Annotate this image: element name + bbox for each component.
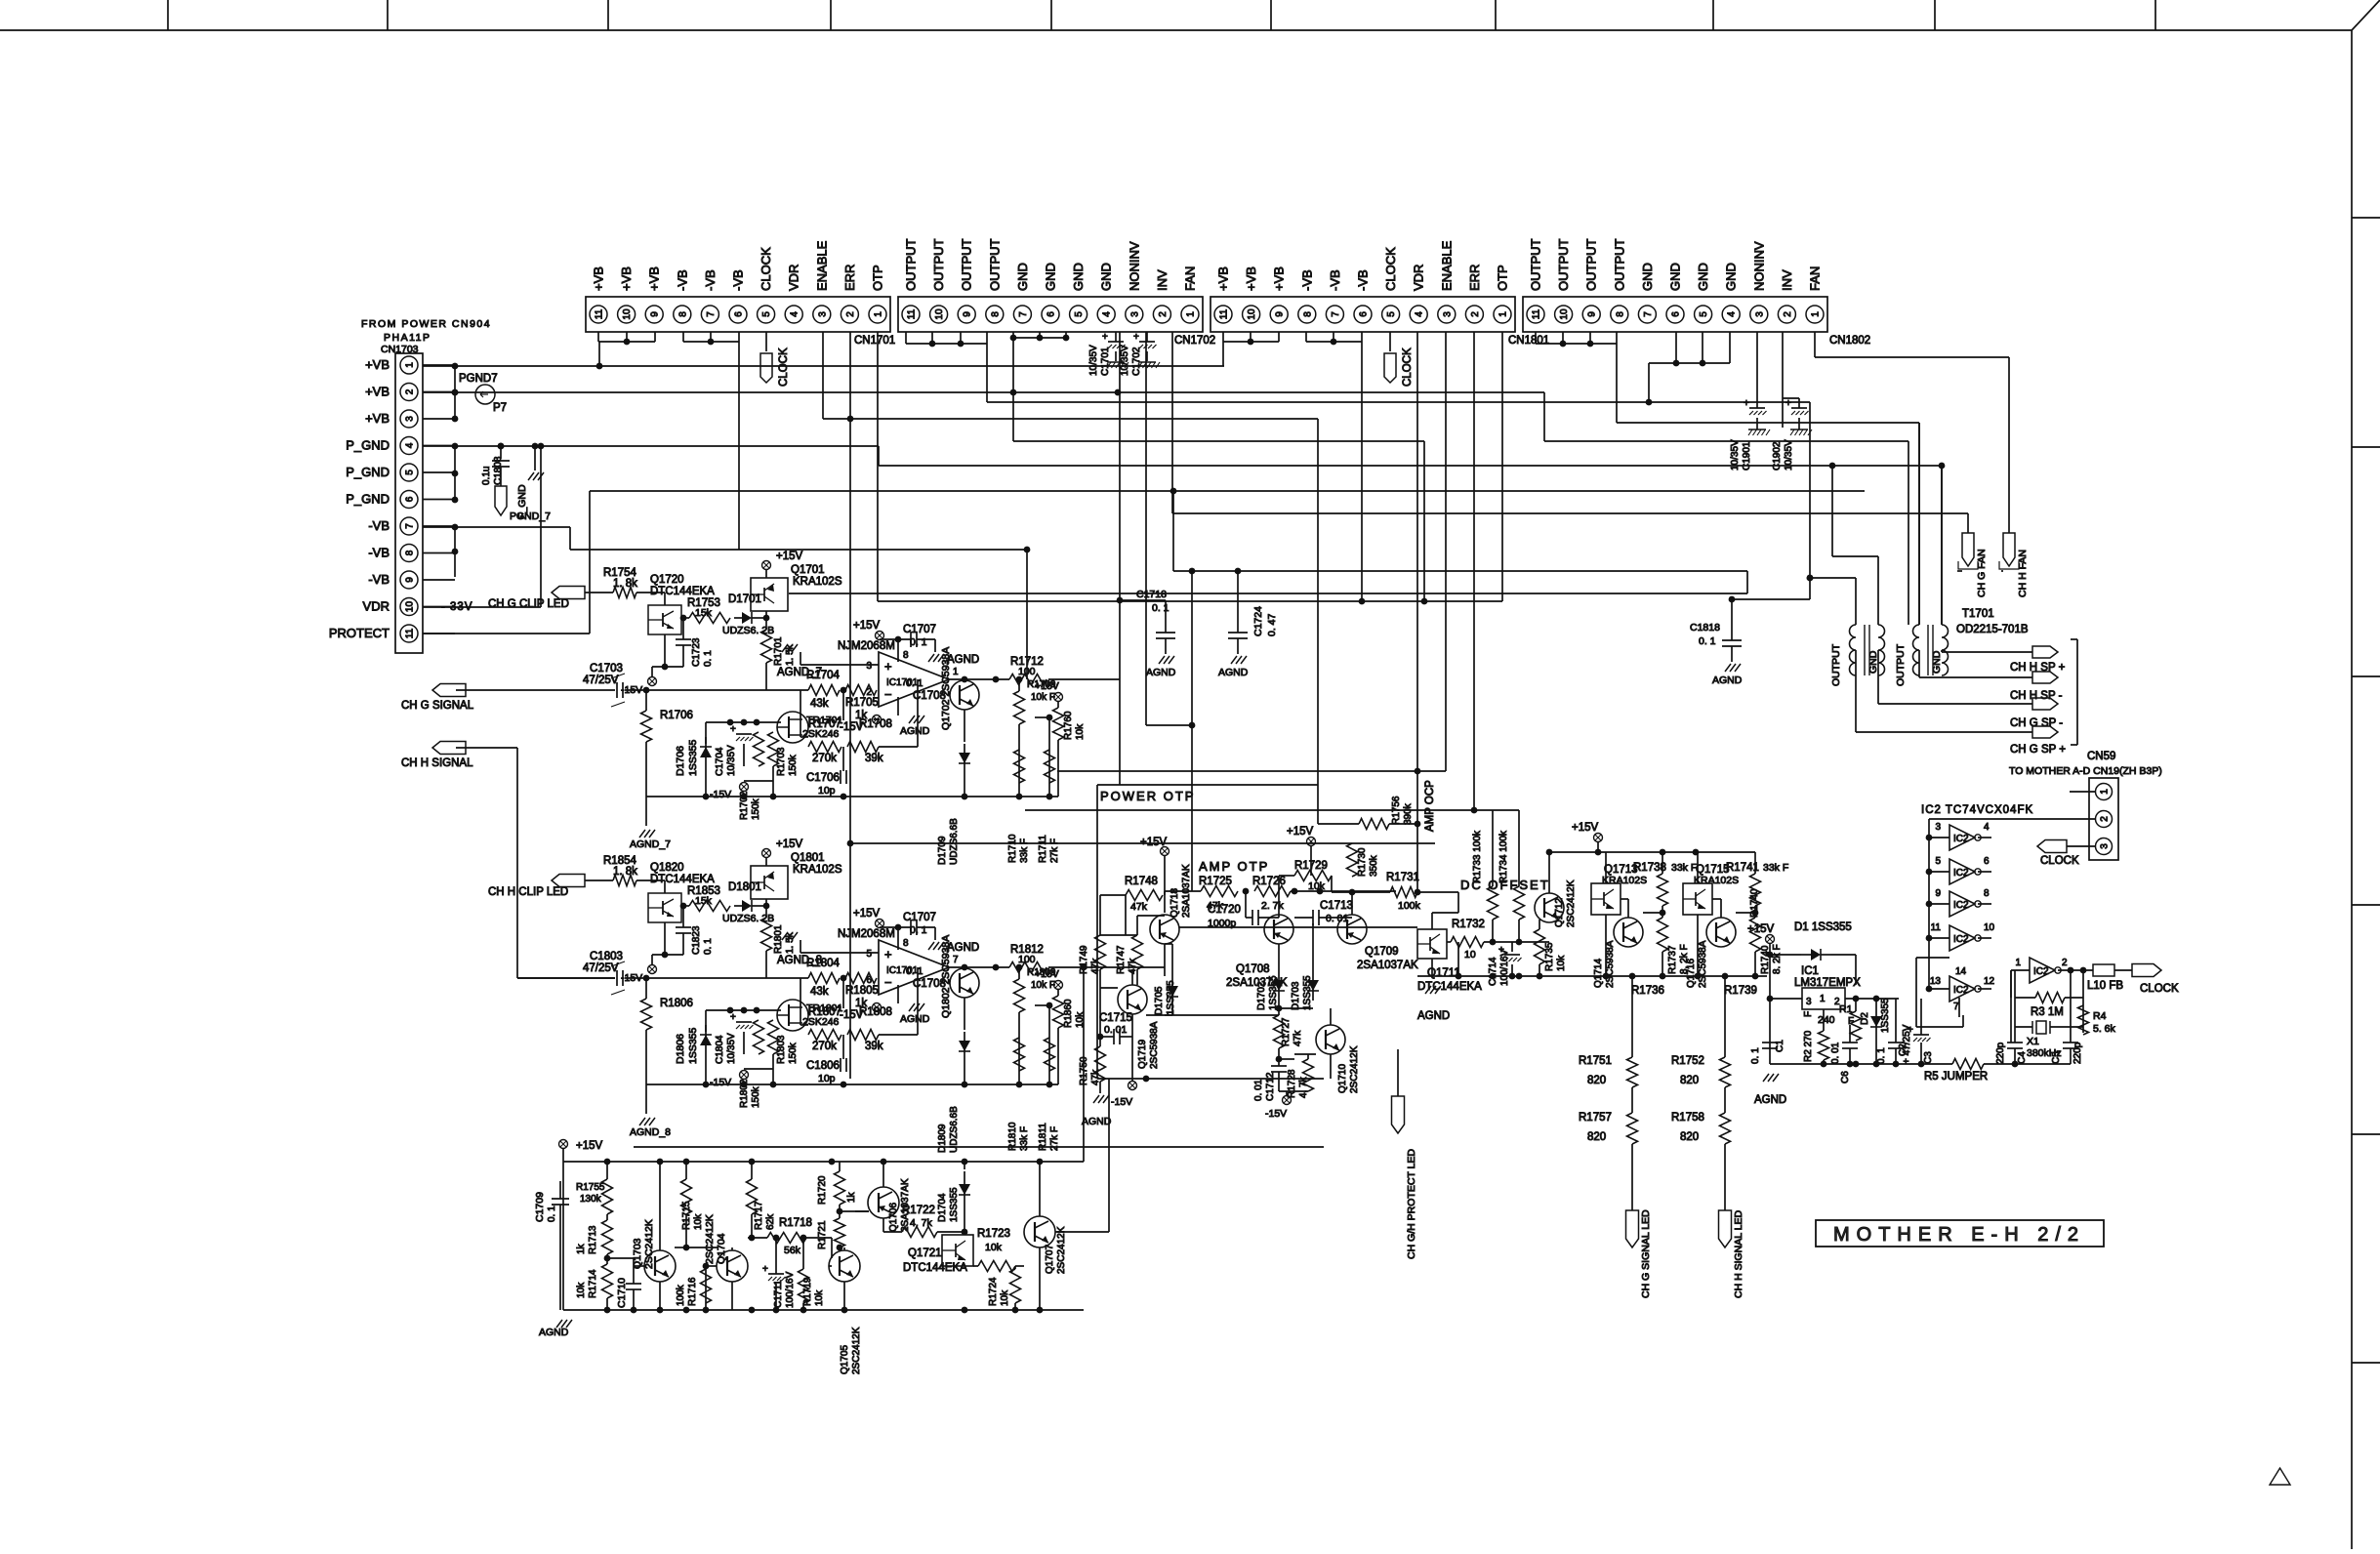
svg-text:10k F: 10k F <box>1031 980 1055 991</box>
svg-text:3: 3 <box>1754 311 1765 317</box>
svg-text:R1720: R1720 <box>817 1175 828 1205</box>
svg-text:+: + <box>730 724 736 735</box>
svg-text:R1731: R1731 <box>1386 872 1419 883</box>
svg-text:150k: 150k <box>788 1042 799 1064</box>
svg-text:C1718: C1718 <box>1136 589 1167 600</box>
svg-text:CH G/H PROTECT LED: CH G/H PROTECT LED <box>1406 1149 1417 1259</box>
svg-text:62k: 62k <box>765 1213 776 1230</box>
svg-text:10: 10 <box>405 601 416 613</box>
svg-text:Q1702 2SC5938A: Q1702 2SC5938A <box>940 647 952 730</box>
svg-text:11: 11 <box>405 628 416 638</box>
svg-text:C1724: C1724 <box>1252 606 1264 636</box>
svg-text:10p: 10p <box>818 785 836 797</box>
svg-text:C1701: C1701 <box>1100 347 1111 376</box>
svg-text:+15V: +15V <box>776 551 803 562</box>
svg-text:D1702: D1702 <box>1256 981 1267 1010</box>
svg-text:1SS355: 1SS355 <box>687 1027 699 1064</box>
svg-text:AMP OCP: AMP OCP <box>1424 780 1436 832</box>
svg-text:-15V: -15V <box>1111 1096 1132 1108</box>
svg-text:C1823: C1823 <box>691 925 702 955</box>
svg-text:2: 2 <box>1783 311 1793 317</box>
svg-text:4: 4 <box>405 442 416 448</box>
svg-text:Q1720: Q1720 <box>650 574 684 586</box>
svg-text:5: 5 <box>866 949 872 960</box>
svg-text:INV: INV <box>1780 269 1794 291</box>
svg-text:0.1u: 0.1u <box>481 467 492 485</box>
svg-text:11: 11 <box>595 308 605 319</box>
svg-text:D2: D2 <box>1860 1012 1870 1025</box>
svg-text:47/25V: 47/25V <box>583 675 619 686</box>
svg-text:CH G SIGNAL: CH G SIGNAL <box>401 700 474 712</box>
svg-text:9: 9 <box>963 311 973 317</box>
svg-text:0. 1: 0. 1 <box>910 636 927 648</box>
svg-text:CN59: CN59 <box>2087 751 2115 762</box>
svg-text:2SC2412K: 2SC2412K <box>704 1214 716 1264</box>
svg-text:R1749: R1749 <box>1079 945 1089 974</box>
svg-text:C1808: C1808 <box>493 456 504 485</box>
svg-text:1: 1 <box>1820 994 1826 1004</box>
svg-text:C1720: C1720 <box>1208 904 1241 916</box>
svg-text:2: 2 <box>1158 311 1169 317</box>
svg-text:+15V: +15V <box>1140 837 1168 848</box>
svg-text:R1805: R1805 <box>845 985 879 997</box>
svg-text:OTP: OTP <box>1496 265 1510 291</box>
svg-text:R1706: R1706 <box>660 710 693 721</box>
svg-text:10p: 10p <box>818 1073 836 1084</box>
svg-text:0. 01: 0. 01 <box>1830 1042 1841 1064</box>
svg-text:C1710: C1710 <box>616 1278 628 1308</box>
svg-text:6: 6 <box>1671 311 1682 317</box>
svg-text:0. 01: 0. 01 <box>1253 1079 1264 1101</box>
svg-text:8: 8 <box>677 311 688 317</box>
svg-text:820: 820 <box>1680 1075 1699 1086</box>
svg-text:1: 1 <box>1186 311 1197 317</box>
svg-text:0. 1: 0. 1 <box>906 677 923 689</box>
svg-text:C3: C3 <box>1923 1051 1934 1064</box>
svg-text:0. 1: 0. 1 <box>910 924 927 936</box>
svg-text:6: 6 <box>1359 311 1370 317</box>
svg-text:3: 3 <box>1935 822 1941 833</box>
svg-text:R1751: R1751 <box>1579 1055 1612 1067</box>
svg-text:7: 7 <box>1018 311 1029 317</box>
svg-text:C1703: C1703 <box>590 663 623 675</box>
svg-text:R1719: R1719 <box>802 1277 813 1306</box>
svg-text:AGND_8: AGND_8 <box>777 955 822 966</box>
svg-text:C1723: C1723 <box>691 637 702 667</box>
svg-text:2SC5938A: 2SC5938A <box>1605 940 1616 988</box>
svg-text:270k: 270k <box>812 1041 837 1052</box>
svg-text:130k: 130k <box>580 1194 602 1205</box>
svg-text:1: 1 <box>1811 311 1822 317</box>
svg-text:R1711: R1711 <box>1038 835 1048 863</box>
svg-text:+VB: +VB <box>1272 266 1287 291</box>
svg-text:OUTPUT: OUTPUT <box>987 239 1002 292</box>
svg-text:39k: 39k <box>865 753 883 764</box>
svg-text:3: 3 <box>1442 311 1453 317</box>
svg-text:1. 5k: 1. 5k <box>785 643 796 666</box>
svg-text:8: 8 <box>1615 311 1625 317</box>
svg-text:R1760: R1760 <box>1063 711 1074 740</box>
svg-text:3: 3 <box>1806 997 1812 1007</box>
svg-text:GND: GND <box>1931 650 1943 674</box>
svg-text:1SS355: 1SS355 <box>1268 975 1279 1010</box>
svg-text:CN1701: CN1701 <box>854 335 895 347</box>
svg-text:10/35V: 10/35V <box>726 745 737 776</box>
svg-text:1k: 1k <box>846 1191 857 1203</box>
svg-text:R1713: R1713 <box>588 1225 598 1254</box>
svg-text:4: 4 <box>1984 822 1990 833</box>
svg-text:7: 7 <box>953 955 959 965</box>
svg-text:OUTPUT: OUTPUT <box>1895 643 1907 686</box>
svg-text:OUTPUT: OUTPUT <box>1584 239 1599 292</box>
svg-text:OD2215-701B: OD2215-701B <box>1956 624 2029 635</box>
svg-text:220p: 220p <box>2072 1042 2083 1064</box>
svg-text:-VB: -VB <box>675 269 689 291</box>
svg-text:1SS355: 1SS355 <box>949 1187 960 1222</box>
svg-text:2SK246: 2SK246 <box>802 1016 840 1028</box>
svg-text:GND: GND <box>1015 263 1030 291</box>
svg-text:100: 100 <box>1018 666 1036 677</box>
svg-text:R1758: R1758 <box>1671 1112 1704 1124</box>
svg-text:ENABLE: ENABLE <box>1439 240 1454 291</box>
svg-text:8: 8 <box>903 938 909 949</box>
svg-text:8: 8 <box>903 650 909 661</box>
svg-text:240: 240 <box>1818 1014 1835 1026</box>
svg-text:C1709: C1709 <box>534 1192 546 1222</box>
svg-text:220p: 220p <box>1995 1042 2006 1064</box>
svg-text:10k: 10k <box>814 1289 825 1306</box>
svg-text:AGND: AGND <box>1146 667 1176 678</box>
svg-text:7: 7 <box>405 523 416 529</box>
svg-text:R1724: R1724 <box>988 1277 999 1306</box>
svg-text:7: 7 <box>1953 1002 1959 1012</box>
svg-text:R1708: R1708 <box>859 718 892 730</box>
svg-text:R1739: R1739 <box>1724 985 1757 997</box>
svg-text:D1703: D1703 <box>1291 981 1301 1010</box>
svg-text:OUTPUT: OUTPUT <box>1529 239 1543 292</box>
svg-text:OUTPUT: OUTPUT <box>1556 239 1571 292</box>
svg-text:FAN: FAN <box>1183 266 1198 291</box>
svg-text:8: 8 <box>405 550 416 555</box>
svg-text:C5: C5 <box>2051 1051 2062 1064</box>
svg-text:10: 10 <box>1464 949 1476 961</box>
svg-text:AGND: AGND <box>1082 1116 1112 1127</box>
svg-text:-VB: -VB <box>1328 269 1342 291</box>
svg-text:P_GND: P_GND <box>346 465 390 479</box>
svg-text:5: 5 <box>1074 311 1085 317</box>
svg-text:D1806: D1806 <box>675 1034 686 1064</box>
svg-text:IC2: IC2 <box>1953 985 1969 996</box>
svg-text:10: 10 <box>1984 922 1995 933</box>
svg-text:43k: 43k <box>810 986 829 998</box>
svg-text:+15V: +15V <box>1572 822 1599 834</box>
svg-text:+: + <box>884 947 892 961</box>
svg-text:56k: 56k <box>784 1245 801 1256</box>
svg-text:33k F: 33k F <box>1671 862 1697 874</box>
svg-text:CLOCK: CLOCK <box>778 348 790 387</box>
svg-text:C1901: C1901 <box>1742 441 1752 470</box>
svg-text:3: 3 <box>817 311 828 317</box>
svg-text:IC2: IC2 <box>1953 868 1969 879</box>
svg-text:270k: 270k <box>812 753 837 764</box>
svg-text:5: 5 <box>1935 856 1941 867</box>
svg-text:D1809: D1809 <box>937 1124 948 1153</box>
svg-text:+VB: +VB <box>592 266 606 291</box>
svg-text:R1703: R1703 <box>776 747 787 776</box>
svg-text:CH G SIGNAL LED: CH G SIGNAL LED <box>1640 1209 1652 1298</box>
svg-text:C1714: C1714 <box>1488 957 1498 986</box>
svg-text:R1735: R1735 <box>1544 942 1555 971</box>
svg-text:R1801: R1801 <box>773 924 784 954</box>
svg-text:+VB: +VB <box>1216 266 1231 291</box>
svg-text:47/25V: 47/25V <box>583 962 619 974</box>
svg-text:0. 47: 0. 47 <box>1266 613 1278 636</box>
svg-text:-VB: -VB <box>1299 269 1314 291</box>
svg-text:R3 1M: R3 1M <box>2031 1006 2064 1018</box>
svg-text:10: 10 <box>1559 308 1570 320</box>
svg-text:3: 3 <box>866 661 872 672</box>
svg-text:+VB: +VB <box>619 266 634 291</box>
svg-text:X1: X1 <box>2027 1036 2039 1047</box>
svg-text:1SS355: 1SS355 <box>687 739 699 776</box>
svg-text:1. 8k: 1. 8k <box>613 578 637 590</box>
svg-text:AGND_8: AGND_8 <box>630 1126 671 1138</box>
svg-text:+: + <box>762 1264 768 1275</box>
svg-text:UDZS6.6B: UDZS6.6B <box>949 818 960 865</box>
svg-text:KRA102S: KRA102S <box>1602 875 1647 886</box>
svg-text:-15V: -15V <box>710 789 731 800</box>
svg-text:UDZS6.6B: UDZS6.6B <box>949 1106 960 1153</box>
svg-text:C4: C4 <box>2017 1051 2028 1064</box>
svg-text:GND: GND <box>1071 263 1086 291</box>
svg-text:R1756: R1756 <box>1391 796 1402 825</box>
svg-text:-VB: -VB <box>703 269 718 291</box>
svg-text:10/35V: 10/35V <box>1120 345 1130 376</box>
svg-text:6: 6 <box>1984 856 1990 867</box>
svg-text:2SC5938A: 2SC5938A <box>1698 940 1708 988</box>
svg-text:2: 2 <box>845 311 856 317</box>
svg-text:-VB: -VB <box>368 572 390 587</box>
svg-text:D1701: D1701 <box>728 593 761 605</box>
svg-text:39k: 39k <box>865 1041 883 1052</box>
svg-text:CLOCK: CLOCK <box>2040 855 2079 867</box>
svg-text:CN1703: CN1703 <box>381 344 419 355</box>
svg-text:5: 5 <box>761 311 772 317</box>
svg-text:2SC2412K: 2SC2412K <box>1566 879 1577 927</box>
svg-text:-VB: -VB <box>368 546 390 560</box>
svg-text:11: 11 <box>1219 308 1230 319</box>
svg-text:0. 1: 0. 1 <box>703 938 714 955</box>
svg-text:27k F: 27k F <box>1049 838 1060 863</box>
svg-text:Q1704: Q1704 <box>716 1233 727 1264</box>
svg-text:AGND_7: AGND_7 <box>777 667 822 678</box>
svg-text:R1723: R1723 <box>977 1228 1010 1240</box>
svg-text:C1902: C1902 <box>1772 441 1783 470</box>
svg-text:820: 820 <box>1587 1075 1606 1086</box>
svg-text:43k: 43k <box>810 698 829 710</box>
svg-text:D1 1SS355: D1 1SS355 <box>1794 921 1852 933</box>
svg-text:1: 1 <box>2015 958 2021 968</box>
svg-text:100k: 100k <box>1398 900 1421 912</box>
svg-text:AGND_7: AGND_7 <box>630 838 671 850</box>
svg-text:KRA102S: KRA102S <box>793 576 842 588</box>
svg-text:2SA1037AK: 2SA1037AK <box>1357 960 1418 971</box>
svg-text:150k: 150k <box>788 754 799 776</box>
svg-text:8. 2k F: 8. 2k F <box>1772 944 1783 974</box>
svg-text:0. 1: 0. 1 <box>547 1206 557 1222</box>
svg-text:1. 8k: 1. 8k <box>613 866 637 878</box>
svg-text:5: 5 <box>1386 311 1397 317</box>
svg-text:R1705: R1705 <box>845 697 879 709</box>
svg-text:OUTPUT: OUTPUT <box>960 239 974 292</box>
svg-text:GND: GND <box>1099 263 1114 291</box>
svg-text:R1710: R1710 <box>1007 834 1018 863</box>
svg-text:C1707: C1707 <box>903 912 936 923</box>
svg-text:10k F: 10k F <box>1031 692 1055 703</box>
svg-text:10: 10 <box>622 308 633 320</box>
svg-text:R1748: R1748 <box>1125 876 1158 887</box>
svg-text:GND: GND <box>1724 263 1739 291</box>
svg-text:Q1706: Q1706 <box>888 1203 899 1232</box>
svg-text:C1713: C1713 <box>1320 900 1353 912</box>
svg-text:GND: GND <box>1640 263 1655 291</box>
svg-text:13: 13 <box>1930 976 1942 987</box>
svg-text:AGND: AGND <box>1712 675 1743 686</box>
svg-text:-VB: -VB <box>1356 269 1371 291</box>
svg-text:R1722: R1722 <box>902 1205 935 1216</box>
svg-text:2: 2 <box>2100 816 2111 822</box>
svg-text:2. 7k: 2. 7k <box>1261 900 1285 912</box>
svg-text:0. 1: 0. 1 <box>1750 1047 1761 1064</box>
svg-text:4: 4 <box>1415 311 1425 317</box>
svg-text:12: 12 <box>1984 976 1995 987</box>
svg-text:TO MOTHER A-D CN19(ZH B3P): TO MOTHER A-D CN19(ZH B3P) <box>2009 765 2162 777</box>
svg-text:DTC144EKA: DTC144EKA <box>650 874 715 885</box>
svg-text:9: 9 <box>1275 311 1286 317</box>
svg-text:10k: 10k <box>1075 723 1086 740</box>
svg-text:11: 11 <box>1532 308 1542 319</box>
svg-text:9: 9 <box>1587 311 1598 317</box>
svg-text:R1733 100k: R1733 100k <box>1472 830 1483 883</box>
svg-text:C1704: C1704 <box>715 747 725 776</box>
svg-text:CH G FAN: CH G FAN <box>1976 549 1988 597</box>
svg-text:+: + <box>884 659 892 674</box>
svg-text:33k F: 33k F <box>1763 862 1788 874</box>
svg-text:PROTECT: PROTECT <box>329 626 390 640</box>
svg-text:ERR: ERR <box>842 265 857 291</box>
svg-text:C1711: C1711 <box>773 1280 784 1308</box>
svg-text:150k: 150k <box>751 797 761 820</box>
svg-text:C1818: C1818 <box>1690 622 1720 634</box>
svg-text:390k: 390k <box>1403 802 1414 825</box>
svg-text:NJM2068M: NJM2068M <box>838 928 895 940</box>
svg-text:IC2 TC74VCX04FK: IC2 TC74VCX04FK <box>1921 804 2033 816</box>
svg-text:R1808: R1808 <box>859 1006 892 1018</box>
svg-text:+15V: +15V <box>576 1140 603 1152</box>
svg-text:7: 7 <box>706 311 717 317</box>
svg-text:100/16V: 100/16V <box>785 1271 796 1308</box>
svg-text:2SC2412K: 2SC2412K <box>1349 1045 1360 1093</box>
svg-text:R1717: R1717 <box>754 1201 764 1230</box>
svg-text:R1716: R1716 <box>687 1277 698 1306</box>
svg-text:0. 1: 0. 1 <box>906 965 923 977</box>
svg-text:CLOCK: CLOCK <box>1383 247 1398 291</box>
svg-text:5: 5 <box>1699 311 1709 317</box>
svg-text:AMP OTP: AMP OTP <box>1199 859 1269 874</box>
svg-text:+: + <box>1744 398 1749 409</box>
svg-text:CN1702: CN1702 <box>1174 335 1215 347</box>
svg-text:IC2: IC2 <box>2033 966 2049 977</box>
svg-text:Q1710: Q1710 <box>1337 1064 1348 1093</box>
svg-text:OUTPUT: OUTPUT <box>931 239 946 292</box>
svg-text:R1740: R1740 <box>1749 888 1760 918</box>
svg-text:ENABLE: ENABLE <box>814 240 829 291</box>
svg-text:1: 1 <box>874 311 884 317</box>
svg-text:+: + <box>730 1012 736 1023</box>
svg-text:IC2: IC2 <box>1953 934 1969 945</box>
svg-text:10k: 10k <box>985 1242 1003 1253</box>
svg-text:C1702: C1702 <box>1131 347 1142 376</box>
svg-text:-15V: -15V <box>621 684 642 696</box>
svg-text:0. 1: 0. 1 <box>1152 602 1169 614</box>
svg-text:R1741: R1741 <box>1726 862 1759 874</box>
svg-text:IC2: IC2 <box>1953 834 1969 844</box>
svg-text:1: 1 <box>2100 789 2111 795</box>
svg-text:R1721: R1721 <box>817 1220 828 1249</box>
svg-text:Q1719: Q1719 <box>1137 1040 1148 1069</box>
svg-text:100: 100 <box>1018 954 1036 965</box>
svg-text:100k: 100k <box>676 1284 686 1306</box>
svg-text:+: + <box>1133 332 1139 343</box>
svg-text:R1736: R1736 <box>1631 985 1664 997</box>
svg-text:-15V: -15V <box>710 1077 731 1088</box>
svg-text:Q1714: Q1714 <box>1593 959 1604 988</box>
svg-text:150k: 150k <box>751 1085 761 1108</box>
svg-text:CH H SP -: CH H SP - <box>2010 690 2063 702</box>
svg-text:Q1707: Q1707 <box>1045 1245 1055 1274</box>
svg-text:+15V: +15V <box>853 620 881 632</box>
svg-text:D1705: D1705 <box>1154 986 1165 1015</box>
svg-text:2SC2412K: 2SC2412K <box>1056 1226 1067 1274</box>
svg-text:C1712: C1712 <box>1265 1072 1276 1101</box>
svg-text:33k F: 33k F <box>1019 838 1030 863</box>
svg-text:L10 FB: L10 FB <box>2087 980 2123 992</box>
svg-text:1SS355: 1SS355 <box>1302 975 1313 1010</box>
svg-text:11: 11 <box>1931 922 1942 933</box>
svg-text:CLOCK: CLOCK <box>1402 348 1414 387</box>
svg-text:Q1701: Q1701 <box>791 564 825 576</box>
svg-text:P_GND: P_GND <box>346 492 390 507</box>
svg-text:8: 8 <box>990 311 1001 317</box>
svg-text:AGND: AGND <box>900 1013 930 1025</box>
svg-text:DTC144EKA: DTC144EKA <box>650 586 715 597</box>
svg-text:CH G SP -: CH G SP - <box>2010 717 2063 729</box>
svg-text:VDR: VDR <box>1412 265 1426 291</box>
svg-text:CH H SIGNAL: CH H SIGNAL <box>401 757 473 769</box>
svg-text:+15V: +15V <box>1035 968 1059 980</box>
svg-text:AGND: AGND <box>539 1327 569 1338</box>
svg-text:1000p: 1000p <box>1208 918 1236 929</box>
svg-text:OTP: OTP <box>871 265 885 291</box>
svg-text:14: 14 <box>1955 966 1967 977</box>
svg-text:TR1701: TR1701 <box>806 715 843 726</box>
svg-text:CLOCK: CLOCK <box>2140 983 2179 995</box>
svg-text:6: 6 <box>866 975 872 986</box>
svg-text:POWER OTP: POWER OTP <box>1100 789 1195 803</box>
svg-text:2SC2412K: 2SC2412K <box>643 1219 655 1269</box>
svg-text:5: 5 <box>405 470 416 475</box>
svg-text:R1718: R1718 <box>779 1217 812 1229</box>
